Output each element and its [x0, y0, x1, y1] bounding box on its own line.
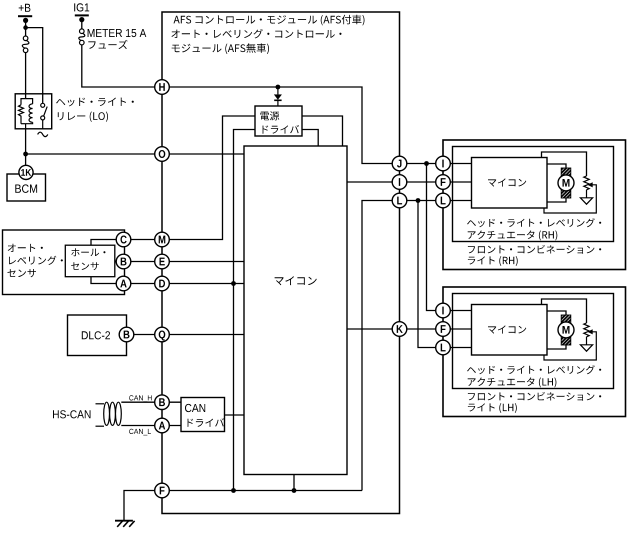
ground triangle RH — [580, 198, 592, 204]
node L branch — [416, 198, 421, 203]
label actuator RH line1 — [467, 218, 601, 227]
wire ground bus driver to F row — [234, 130, 256, 491]
auto leveling sensor box — [3, 230, 125, 295]
wire pin J to actuator RH pin I — [400, 163, 444, 165]
IG1 terminal — [75, 14, 89, 16]
pin C at 123.5,239.5 — [116, 232, 131, 247]
label sensor line1 — [8, 244, 43, 252]
pin I at 443,163.5 — [436, 156, 451, 171]
label HS-CAN — [53, 410, 91, 418]
pin B at 162,402.2 — [155, 395, 170, 410]
wire F row ground bus — [162, 490, 362, 492]
wire pin M to power driver — [162, 116, 255, 240]
pin F at 162,490.5 — [155, 483, 170, 498]
hall sensor box — [65, 245, 115, 277]
label IG1 — [74, 3, 89, 11]
node D ground tap — [231, 281, 236, 286]
pin L at 443,200.5 — [436, 193, 451, 208]
relay coil with resistor K1 — [19, 94, 33, 129]
pin K at 399.5,329 — [392, 322, 407, 337]
label relay line2 — [58, 112, 108, 122]
pin H at 162,87 — [155, 80, 170, 95]
label sensor line2 — [9, 256, 63, 265]
wire CAN_L to pin A — [121, 425, 162, 427]
wire pin I to actuator RH pin F — [400, 181, 444, 183]
label BCM — [15, 184, 37, 193]
node diode tap — [276, 85, 281, 90]
wire microcomputer to pin K — [347, 328, 400, 330]
pin J at 399.5,163.5 — [392, 156, 407, 171]
label actuator RH line2 — [468, 230, 558, 240]
label actuator LH line2 — [468, 377, 557, 387]
wire pin F to ground — [124, 491, 162, 521]
node relay output — [23, 152, 28, 157]
node F ground bus micro — [292, 488, 297, 493]
wire power driver to microcomputer top A — [302, 116, 343, 146]
pin O at 162,154 — [155, 147, 170, 162]
label actuator micro LH — [488, 325, 526, 333]
label fuse jp — [88, 40, 127, 49]
wire pin D to microcomputer — [162, 283, 244, 285]
label combination LH line1 — [468, 392, 601, 401]
wire microcomputer to pin I — [347, 181, 400, 183]
label CAN_H — [129, 395, 152, 402]
wire pin A to CAN driver — [162, 425, 181, 427]
CAN driver box U3 — [181, 398, 225, 432]
wire fusible link to relay coil — [25, 53, 27, 95]
motor M1 LH — [558, 315, 574, 345]
wires actuator LH pins to microcomputer — [443, 311, 472, 348]
wire resistor to ground LH — [586, 337, 588, 345]
position sensor resistor RH — [584, 176, 589, 190]
wire pin K to actuator LH pin F — [400, 328, 444, 330]
actuator RH microcomputer box U4 — [472, 158, 548, 209]
ground triangle LH — [580, 345, 592, 351]
pin F at 443,182 — [436, 175, 451, 190]
wire microcomputer bottom to ground bus — [293, 475, 295, 491]
wire microcomputer LH to position sensor — [542, 299, 587, 323]
wire motor top LH — [547, 311, 566, 316]
pin Q at 162,334.5 — [155, 327, 170, 342]
label CAN — [185, 404, 205, 412]
connector 1K to BCM — [19, 165, 33, 179]
relay switch contact — [38, 103, 48, 136]
wire resistor to ground RH — [586, 190, 588, 198]
wire power driver to microcomputer top B — [302, 130, 318, 147]
wire microcomputer RH to position sensor — [542, 152, 587, 176]
label CAN driver jp — [188, 418, 225, 427]
ground G1 — [115, 521, 135, 527]
wire motor top RH — [547, 164, 566, 169]
position sensor resistor LH — [584, 323, 589, 337]
diode D1 — [274, 87, 281, 106]
wire J branch to actuator LH pin I — [427, 164, 444, 311]
pin D at 162,283.5 — [155, 276, 170, 291]
front combination light RH box — [443, 140, 626, 270]
label combination LH line2 — [468, 403, 517, 413]
label AFS module line2 — [171, 29, 341, 38]
wire node to pin O — [26, 153, 162, 155]
wire hall sensor to pin B — [115, 261, 124, 263]
wire IG1 down — [81, 20, 83, 29]
label +B — [19, 4, 31, 12]
wire hall sensor to pin A — [91, 277, 124, 284]
node F ground bus left — [231, 488, 236, 493]
power driver box U2 — [255, 106, 302, 136]
headlight leveling actuator RH box — [453, 147, 614, 242]
wire node down to BCM — [25, 154, 27, 166]
label power driver line2 — [263, 125, 300, 134]
wire pin B to pin E — [124, 261, 163, 263]
pin L at 399.5,200.5 — [392, 193, 407, 208]
label combination RH line2 — [468, 256, 518, 266]
label actuator micro RH — [488, 178, 526, 186]
pin A at 162,425.5 — [155, 418, 170, 433]
wire motor bottom RH — [547, 198, 566, 203]
wire motor bottom LH — [547, 345, 566, 350]
motor M1 RH — [558, 168, 574, 198]
node J branch — [424, 161, 429, 166]
wiper arrow RH — [544, 182, 596, 213]
label AFS module line1 — [174, 15, 365, 26]
pin I at 399.5,182 — [392, 175, 407, 190]
wire pin E to microcomputer — [162, 261, 244, 263]
wire pin H to pin J — [162, 87, 400, 164]
wire L branch to actuator LH pin L — [418, 201, 443, 348]
actuator LH microcomputer box U5 — [472, 305, 548, 356]
headlight leveling actuator LH box — [453, 294, 614, 389]
BCM box — [7, 174, 46, 201]
wire HS-CAN stub H — [96, 403, 105, 405]
pin E at 162,261.5 — [155, 254, 170, 269]
label microcomputer — [275, 276, 317, 285]
wire HS-CAN stub L — [96, 425, 105, 427]
microcomputer box U1 — [244, 146, 347, 475]
wire pin C to pin M — [124, 239, 163, 241]
label relay line1 — [56, 98, 134, 107]
pin M at 162,239.5 — [155, 232, 170, 247]
wire pin A to pin D — [124, 283, 163, 285]
+B terminal — [18, 15, 32, 17]
label combination RH line1 — [468, 245, 601, 254]
pin B at 123.5,261.5 — [116, 254, 131, 269]
pin L at 443,347.5 — [436, 340, 451, 355]
wire fuse to pin H — [82, 45, 162, 87]
DLC-2 box — [68, 315, 127, 356]
front combination light LH box — [443, 287, 626, 417]
label AFS module line3 — [172, 43, 269, 54]
twisted pair HS-CAN — [104, 402, 122, 425]
pin B at 126.5,334.5 — [119, 327, 134, 342]
node +B branch — [23, 25, 28, 30]
label actuator LH line1 — [467, 365, 601, 374]
fusible link F1 — [22, 36, 29, 53]
wire +B branch to relay switch — [26, 28, 43, 104]
label METER 15 A — [88, 29, 147, 37]
relay box — [15, 94, 52, 129]
wire CAN driver to microcomputer — [225, 414, 245, 416]
pin I at 443,310.5 — [436, 303, 451, 318]
wires actuator RH pins to microcomputer — [443, 164, 472, 201]
wire pin L to actuator RH pin L — [400, 200, 444, 202]
label CAN_L — [129, 429, 151, 436]
wire DLC-2 pin B to pin Q — [127, 334, 163, 336]
wiper arrow LH — [544, 329, 596, 360]
wire +B down — [25, 20, 27, 36]
wire CAN_H to pin B — [121, 401, 162, 403]
wire pin B to CAN driver — [162, 401, 181, 403]
pin F at 443,329 — [436, 322, 451, 337]
wire pin O to microcomputer — [162, 153, 244, 155]
wire hall sensor to pin C — [91, 240, 124, 246]
fuse METER 15A — [79, 29, 85, 45]
pin A at 123.5,283.5 — [116, 276, 131, 291]
label sensor line3 — [7, 269, 36, 277]
label DLC-2 — [82, 331, 110, 339]
wire pin L to ground rail — [362, 201, 400, 491]
AFS control module box — [162, 12, 400, 514]
label hall line1 — [71, 248, 105, 256]
wire pin Q to microcomputer — [162, 334, 244, 336]
label hall line2 — [71, 262, 99, 270]
label power driver line1 — [260, 111, 279, 120]
wire relay coil to O-row — [25, 129, 27, 154]
